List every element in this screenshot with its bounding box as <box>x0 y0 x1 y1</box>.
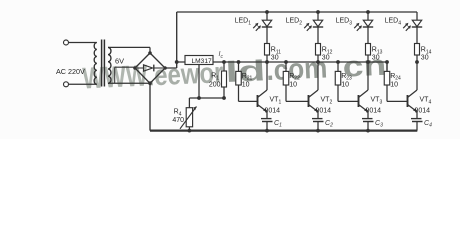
svg-text:AC 220V: AC 220V <box>56 67 85 76</box>
svg-text:10: 10 <box>242 81 250 88</box>
svg-text:9014: 9014 <box>265 108 281 115</box>
svg-text:30: 30 <box>421 55 429 62</box>
svg-text:10: 10 <box>341 81 349 88</box>
svg-text:30: 30 <box>322 55 330 62</box>
svg-text:9014: 9014 <box>366 108 382 115</box>
svg-text:30: 30 <box>271 55 279 62</box>
svg-text:9014: 9014 <box>316 108 332 115</box>
svg-text:9014: 9014 <box>415 108 431 115</box>
svg-text:470: 470 <box>172 117 184 124</box>
svg-text:200: 200 <box>209 82 221 89</box>
svg-text:LM317: LM317 <box>192 58 212 65</box>
svg-text:6V: 6V <box>115 57 124 66</box>
svg-text:10: 10 <box>390 81 398 88</box>
svg-text:30: 30 <box>372 55 380 62</box>
svg-text:10: 10 <box>289 81 297 88</box>
